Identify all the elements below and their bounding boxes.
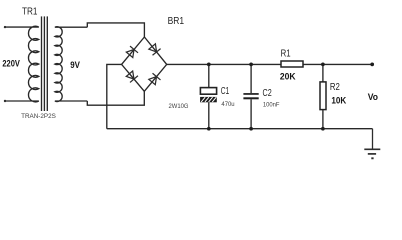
node junction C2 bottom — [249, 127, 253, 131]
svg-text:Vo: Vo — [368, 92, 378, 103]
svg-text:BR1: BR1 — [168, 16, 185, 27]
capacitor C1 positive plate — [200, 88, 216, 95]
capacitor C2 bottom lead — [250, 99, 252, 128]
transformer TR1 primary winding — [4, 26, 38, 102]
transformer TR1 secondary winding — [55, 27, 87, 102]
svg-text:R2: R2 — [330, 82, 340, 93]
diode BR1 bottom-left — [126, 71, 138, 82]
resistor R2 top lead — [322, 64, 324, 81]
svg-text:100nF: 100nF — [263, 101, 280, 108]
node junction C1 bottom — [207, 127, 211, 131]
transformer TR1 primary terminal stub end top — [4, 26, 6, 28]
svg-text:470u: 470u — [221, 101, 234, 108]
wire secondary bottom to bridge bottom corner — [87, 91, 144, 105]
svg-text:C2: C2 — [263, 88, 273, 99]
wire secondary top to bridge top corner — [87, 23, 144, 37]
svg-text:TR1: TR1 — [22, 6, 38, 17]
node junction R2 bottom — [321, 127, 325, 131]
svg-text:220V: 220V — [2, 59, 20, 69]
diode BR1 bottom-right — [149, 73, 161, 84]
svg-text:10K: 10K — [331, 96, 346, 106]
svg-text:C1: C1 — [221, 86, 230, 97]
wire bottom ground rail — [107, 128, 373, 130]
capacitor C2 bottom plate — [243, 97, 258, 99]
node junction C1 top — [207, 63, 211, 67]
wire top output rail — [167, 63, 373, 65]
bridge rectifier BR1 diamond — [122, 37, 167, 91]
diode BR1 top-left — [126, 46, 138, 57]
capacitor C1 bottom lead — [208, 102, 210, 128]
svg-text:20K: 20K — [280, 71, 296, 81]
node junction R2 top — [321, 63, 325, 67]
capacitor C2 top plate — [243, 93, 258, 95]
transformer TR1 primary terminal stub end bottom — [4, 100, 6, 102]
resistor R1 body — [281, 61, 303, 67]
svg-text:2W10G: 2W10G — [169, 103, 189, 110]
capacitor C1 top lead — [208, 64, 210, 87]
node junction C2 top — [249, 63, 253, 67]
ground — [364, 129, 380, 159]
node output terminal Vo — [370, 63, 374, 67]
transformer TR1 core — [42, 16, 48, 111]
svg-text:9V: 9V — [70, 60, 80, 71]
capacitor C1 negative plate hatched — [200, 97, 217, 102]
svg-text:TRAN-2P2S: TRAN-2P2S — [21, 113, 56, 120]
resistor R2 bottom lead — [322, 110, 324, 129]
diode BR1 top-right — [149, 44, 161, 55]
wire bridge left corner to bottom rail — [107, 64, 122, 128]
svg-text:R1: R1 — [281, 48, 291, 59]
capacitor C2 top lead — [250, 64, 252, 93]
resistor R2 body — [320, 82, 326, 110]
